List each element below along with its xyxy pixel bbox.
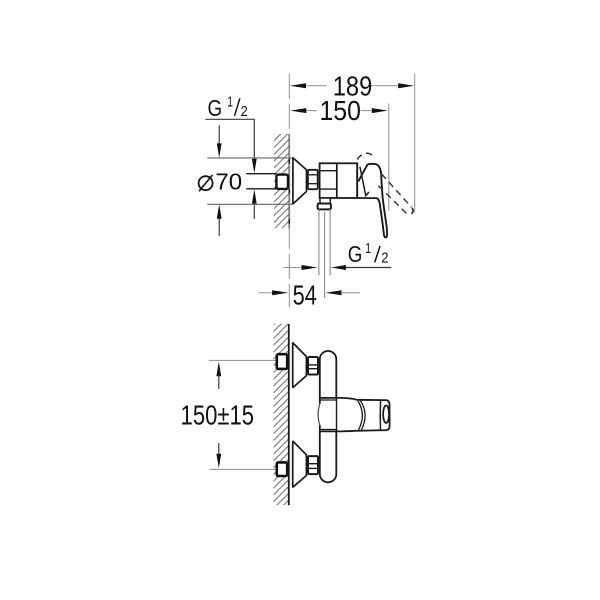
outlet thread extension lines bbox=[318, 209, 320, 275]
extension line to lower square bbox=[210, 468, 276, 470]
wall hatch (top view) bbox=[274, 134, 289, 228]
cartridge cylinder inner top line bbox=[320, 399, 337, 401]
extension line handle raised tip x=414.7 bbox=[414, 74, 416, 213]
Ø70 top extent line bbox=[207, 157, 293, 159]
outlet nipple (top view) bbox=[320, 198, 330, 204]
lever alternate position dashed top edge bbox=[382, 174, 412, 208]
leader line under G 1/2 (top) with vertical to arrows bbox=[205, 119, 254, 160]
Ø70 upper arrow bbox=[218, 125, 220, 144]
outlet centre line bbox=[324, 212, 326, 298]
outlet collar (top view) bbox=[318, 204, 331, 210]
cartridge cylinder bottom line bbox=[319, 430, 356, 433]
dimension 150±15 line bbox=[216, 362, 221, 469]
G 1/2 up arrow onto pipe bottom line bbox=[252, 189, 257, 204]
mixer body (top view) bbox=[320, 163, 358, 198]
lower escutcheon cone (front view) bbox=[293, 441, 307, 488]
white mask over body right edge behind cylinder bbox=[321, 397, 336, 432]
wall hatch (front view) bbox=[274, 324, 289, 505]
lever hub (top view) bbox=[358, 164, 381, 182]
dimension 189 line bbox=[290, 83, 414, 88]
extension line at wall face x=289.3 bbox=[288, 74, 290, 307]
lever inner edge (top view) bbox=[360, 167, 369, 196]
svg-text:150±15: 150±15 bbox=[181, 400, 255, 431]
lower square fitting (front view) bbox=[277, 462, 287, 476]
svg-text:54: 54 bbox=[293, 280, 317, 311]
upper escutcheon cone (front view) bbox=[293, 342, 307, 388]
svg-text:2: 2 bbox=[241, 104, 248, 120]
knob end ellipse bbox=[383, 406, 389, 423]
lever alternate position dashed bottom edge bbox=[378, 186, 409, 216]
wall face line (front view) bbox=[288, 324, 290, 505]
G 1/2 outlet leader with left arrow bbox=[331, 265, 346, 270]
extension line to upper square bbox=[209, 359, 276, 361]
label G 1/2 (outlet) bbox=[348, 241, 389, 267]
label Ø 70 bbox=[199, 168, 243, 194]
svg-text:1: 1 bbox=[227, 95, 233, 111]
G 1/2 outlet right-pointing arrow (left side) bbox=[283, 267, 301, 269]
body inlet step lines bbox=[320, 170, 337, 172]
wall face line (top view) bbox=[288, 134, 290, 228]
svg-text:G: G bbox=[208, 95, 223, 121]
label G 1/2 (top, supply) bbox=[208, 95, 248, 121]
cap underside line to blade corner (top view) bbox=[357, 197, 377, 199]
dimension 54 line bbox=[259, 290, 361, 295]
lower nut (front view) bbox=[308, 456, 318, 474]
lever alternate position dashed tip bbox=[412, 208, 413, 214]
supply pipe lines in wall (top view) bbox=[246, 173, 276, 175]
cartridge cylinder inner bottom line bbox=[320, 429, 337, 431]
Ø70 lower arrow bbox=[217, 204, 222, 219]
G 1/2 down arrow onto pipe top line bbox=[252, 159, 257, 174]
knob outline (front view) bbox=[356, 400, 389, 431]
svg-text:70: 70 bbox=[215, 168, 242, 194]
cap front vertical (top view) bbox=[356, 163, 358, 198]
lever blade (top view) bbox=[377, 182, 388, 238]
supply elbow bulge on body left edge bbox=[318, 404, 320, 426]
svg-text:150: 150 bbox=[319, 95, 361, 126]
extension line handle front x=388.8 bbox=[388, 104, 390, 211]
svg-text:G: G bbox=[348, 241, 363, 267]
square union fitting in wall (top view) bbox=[276, 175, 288, 189]
upper nut (front view) bbox=[308, 357, 318, 375]
cartridge cylinder top line bbox=[319, 398, 356, 400]
escutcheon cone (top view) bbox=[293, 157, 307, 204]
Ø70 bottom extent line bbox=[207, 203, 293, 205]
svg-text:1: 1 bbox=[365, 241, 371, 257]
knob divider line bbox=[379, 400, 381, 430]
white gap on body left edge behind elbow bulge bbox=[319, 404, 321, 425]
svg-text:2: 2 bbox=[381, 251, 388, 267]
upper square fitting (front view) bbox=[277, 354, 287, 369]
dimension 150 line bbox=[290, 108, 388, 113]
knob flare double arc bbox=[358, 401, 362, 430]
connection nut (top view) bbox=[308, 170, 318, 189]
body divider line bbox=[336, 163, 338, 198]
mixer body column (front view) bbox=[320, 351, 337, 482]
lever alternate position dashed arc bbox=[357, 153, 373, 159]
